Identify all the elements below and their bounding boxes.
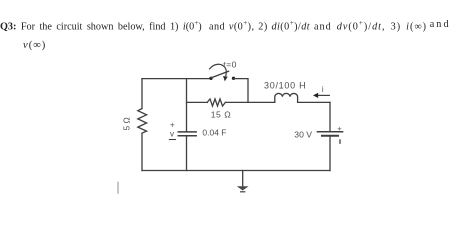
svg-text:0.04 F: 0.04 F	[202, 128, 226, 138]
switch closing-motion arc	[210, 64, 227, 75]
switch left terminal dot	[209, 77, 212, 80]
ground stem	[242, 171, 244, 187]
problem statement line 2	[23, 40, 46, 51]
svg-text:15 Ω: 15 Ω	[211, 110, 232, 120]
wire: left vertical upper segment	[141, 79, 143, 109]
svg-text:v: v	[170, 130, 175, 139]
wire: middle vertical from top wire down to capacitor top plate	[186, 79, 188, 132]
resistor R1 5 ohm (vertical zigzag)	[138, 109, 147, 134]
battery V1 short (negative) plate	[322, 135, 338, 137]
problem statement line 1	[0, 19, 202, 32]
resistor R2 15 ohm (horizontal zigzag)	[207, 99, 225, 106]
svg-text:+: +	[337, 124, 342, 133]
svg-text:30/100 H: 30/100 H	[264, 81, 306, 91]
stray faint mark bottom-left	[117, 183, 119, 194]
wire: middle vertical from capacitor bottom plate to bottom wire	[186, 136, 188, 171]
ground arrowhead triangle	[237, 186, 249, 190]
wire: battery bottom plate down to bottom-right corner	[329, 136, 331, 171]
current arrow i (pointing left)	[317, 94, 329, 96]
switch right terminal dot	[232, 77, 235, 80]
capacitor C1 bottom plate	[178, 135, 196, 137]
current arrowhead	[313, 93, 318, 98]
capacitor C1 top plate	[178, 131, 196, 133]
switch blade	[211, 71, 229, 78]
wire: switch right terminal to corner and down to resistor branch	[234, 79, 249, 103]
battery negative tick mark	[339, 140, 341, 143]
svg-text:+: +	[170, 120, 175, 129]
battery V1 long (positive) plate	[317, 131, 342, 133]
wire: left vertical lower segment	[141, 133, 143, 170]
wire: bottom horizontal	[142, 170, 330, 172]
minus underline below v	[169, 139, 175, 141]
wire: from 15-ohm resistor right end to inductor	[225, 101, 274, 103]
svg-text:5 Ω: 5 Ω	[122, 117, 132, 130]
inductor L1 30/100 H (three humps)	[275, 93, 298, 102]
switch closing arrowhead	[223, 76, 228, 81]
wire: resistor branch from middle vertical to 15-ohm resistor	[187, 101, 208, 103]
wire: right vertical from corner down to battery top plate	[329, 102, 331, 131]
ground lower bar	[241, 191, 245, 193]
wire: inductor to top-right corner	[298, 101, 330, 103]
wire: top-left horizontal segment (top node to switch left terminal)	[142, 78, 211, 80]
svg-text:t=0: t=0	[223, 60, 237, 70]
svg-text:30 V: 30 V	[294, 129, 312, 139]
svg-text:i: i	[322, 85, 324, 94]
